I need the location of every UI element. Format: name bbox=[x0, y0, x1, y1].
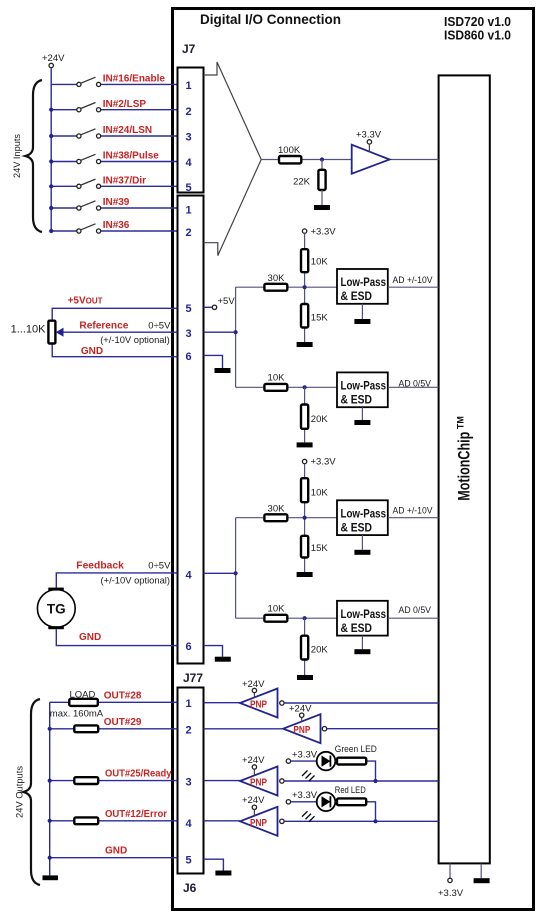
svg-text:2: 2 bbox=[185, 725, 191, 737]
svg-text:IN#37/Dir: IN#37/Dir bbox=[103, 175, 146, 186]
svg-text:15K: 15K bbox=[311, 543, 329, 554]
svg-text:3: 3 bbox=[185, 328, 191, 340]
svg-text:J6: J6 bbox=[183, 881, 197, 895]
svg-text:+24V: +24V bbox=[242, 795, 265, 806]
svg-text:15K: 15K bbox=[311, 313, 329, 324]
svg-text:1: 1 bbox=[185, 205, 191, 217]
svg-text:TG: TG bbox=[47, 602, 66, 617]
svg-text:30K: 30K bbox=[268, 273, 286, 284]
svg-text:24V Inputs: 24V Inputs bbox=[12, 134, 23, 178]
svg-text:1...10K: 1...10K bbox=[11, 324, 47, 336]
svg-text:+3.3V: +3.3V bbox=[356, 130, 382, 141]
svg-text:10K: 10K bbox=[311, 257, 329, 268]
svg-text:+24V: +24V bbox=[42, 53, 65, 64]
svg-text:& ESD: & ESD bbox=[341, 394, 373, 406]
svg-text:+3.3V: +3.3V bbox=[438, 888, 464, 899]
svg-text:0÷5V: 0÷5V bbox=[148, 561, 171, 572]
svg-text:IN#2/LSP: IN#2/LSP bbox=[103, 99, 147, 110]
svg-text:OUT#25/Ready: OUT#25/Ready bbox=[105, 769, 172, 780]
svg-text:AD +/-10V: AD +/-10V bbox=[393, 275, 434, 286]
svg-text:24V Outputs: 24V Outputs bbox=[15, 766, 26, 818]
svg-text:1: 1 bbox=[185, 80, 191, 92]
svg-text:20K: 20K bbox=[311, 414, 329, 425]
svg-text:AD +/-10V: AD +/-10V bbox=[393, 506, 434, 517]
svg-text:100K: 100K bbox=[278, 145, 301, 156]
svg-text:ISD720 v1.0: ISD720 v1.0 bbox=[444, 15, 511, 29]
svg-text:(+/-10V optional): (+/-10V optional) bbox=[100, 335, 170, 346]
svg-text:6: 6 bbox=[185, 351, 191, 363]
svg-text:GND: GND bbox=[81, 346, 103, 357]
svg-text:10K: 10K bbox=[268, 373, 286, 384]
svg-text:+3.3V: +3.3V bbox=[311, 226, 337, 237]
svg-text:GND: GND bbox=[105, 846, 127, 857]
svg-text:6: 6 bbox=[185, 641, 191, 653]
svg-text:& ESD: & ESD bbox=[341, 623, 373, 635]
svg-text:+3.3V: +3.3V bbox=[292, 749, 318, 760]
svg-text:+3.3V: +3.3V bbox=[292, 790, 318, 801]
svg-text:Feedback: Feedback bbox=[76, 561, 124, 572]
svg-text:PNP: PNP bbox=[250, 818, 267, 829]
svg-text:Red LED: Red LED bbox=[335, 785, 366, 796]
svg-text:1: 1 bbox=[185, 698, 191, 710]
svg-text:30K: 30K bbox=[268, 504, 286, 515]
svg-text:3: 3 bbox=[185, 777, 191, 789]
svg-text:+5V: +5V bbox=[218, 296, 236, 307]
svg-text:Low-Pass: Low-Pass bbox=[341, 380, 387, 392]
svg-text:4: 4 bbox=[185, 569, 192, 581]
svg-text:10K: 10K bbox=[311, 488, 329, 499]
svg-text:4: 4 bbox=[185, 157, 192, 169]
svg-text:IN#16/Enable: IN#16/Enable bbox=[103, 74, 166, 85]
svg-text:0÷5V: 0÷5V bbox=[148, 320, 171, 331]
svg-text:Low-Pass: Low-Pass bbox=[341, 609, 387, 621]
svg-text:PNP: PNP bbox=[250, 700, 267, 711]
svg-text:22K: 22K bbox=[293, 177, 311, 188]
svg-text:10K: 10K bbox=[268, 603, 286, 614]
svg-text:TM: TM bbox=[456, 416, 466, 429]
svg-text:(+/-10V optional): (+/-10V optional) bbox=[101, 576, 171, 587]
svg-text:IN#24/LSN: IN#24/LSN bbox=[103, 125, 152, 136]
svg-text:2: 2 bbox=[185, 227, 191, 239]
svg-text:5: 5 bbox=[185, 855, 191, 867]
svg-text:max. 160mA: max. 160mA bbox=[50, 708, 104, 719]
svg-text:OUT#12/Error: OUT#12/Error bbox=[105, 809, 167, 820]
svg-text:& ESD: & ESD bbox=[341, 522, 373, 534]
svg-text:5: 5 bbox=[185, 303, 191, 315]
svg-text:PNP: PNP bbox=[293, 725, 310, 736]
svg-text:PNP: PNP bbox=[250, 778, 267, 789]
svg-text:OUT#29: OUT#29 bbox=[104, 717, 142, 728]
svg-text:Low-Pass: Low-Pass bbox=[341, 277, 387, 289]
svg-text:J7: J7 bbox=[182, 42, 196, 56]
svg-text:IN#36: IN#36 bbox=[103, 220, 130, 231]
svg-text:Green LED: Green LED bbox=[335, 744, 377, 755]
svg-text:& ESD: & ESD bbox=[341, 291, 373, 303]
svg-text:IN#38/Pulse: IN#38/Pulse bbox=[103, 151, 160, 162]
svg-text:MotionChip: MotionChip bbox=[456, 432, 474, 501]
svg-text:2: 2 bbox=[185, 106, 191, 118]
svg-text:J77: J77 bbox=[183, 671, 203, 685]
svg-text:IN#39: IN#39 bbox=[103, 197, 130, 208]
svg-text:OUT#28: OUT#28 bbox=[104, 690, 142, 701]
svg-text:+3.3V: +3.3V bbox=[311, 457, 337, 468]
svg-text:AD 0/5V: AD 0/5V bbox=[399, 605, 432, 616]
svg-text:Reference: Reference bbox=[79, 320, 128, 331]
svg-text:+5VOUT: +5VOUT bbox=[68, 296, 103, 307]
svg-text:Low-Pass: Low-Pass bbox=[341, 508, 387, 520]
svg-text:3: 3 bbox=[185, 132, 191, 144]
svg-text:Digital I/O Connection: Digital I/O Connection bbox=[200, 12, 341, 27]
svg-text:5: 5 bbox=[185, 182, 191, 194]
svg-text:4: 4 bbox=[185, 818, 192, 830]
svg-text:20K: 20K bbox=[311, 645, 329, 656]
svg-text:GND: GND bbox=[79, 632, 101, 643]
svg-text:ISD860 v1.0: ISD860 v1.0 bbox=[444, 29, 511, 43]
